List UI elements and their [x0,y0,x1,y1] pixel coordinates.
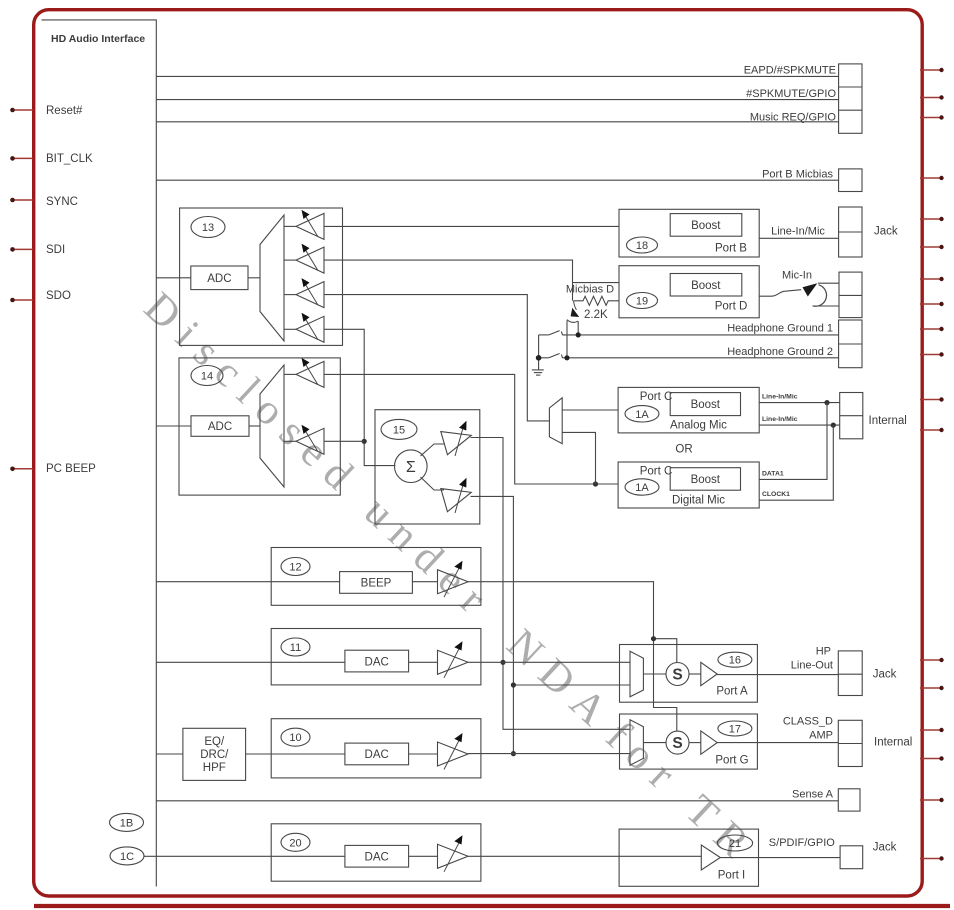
junction ground [536,355,542,361]
HPG pin stack [839,320,862,368]
stub IntC2 [920,429,941,431]
amp port A [701,662,717,685]
Port I block [619,829,758,886]
block 10 box [271,719,481,778]
wire line-in/mic 2 [759,424,840,426]
junction portG in2 [511,751,516,756]
svg-text:Boost: Boost [691,280,721,292]
wire line-in/mic 1 [759,402,840,404]
svg-text:16: 16 [729,655,741,667]
amp 11 [438,650,469,674]
mux block14 [260,365,284,487]
svg-text:1A: 1A [635,482,649,494]
wire muxG out [643,742,666,744]
svg-text:DRC/: DRC/ [200,749,229,761]
wire ADC14 to mux [249,425,260,427]
Port C analog block [618,387,759,433]
wire to mic jack lower [813,305,839,307]
svg-text:19: 19 [636,296,648,308]
wire Port B Micbias [156,179,838,181]
Port C selector mux [549,398,562,444]
boost B [670,214,742,237]
amp 13b [284,259,296,261]
jack B stack [839,207,862,257]
svg-text:Internal: Internal [869,415,907,427]
wire beep to S portA [654,639,677,663]
svg-text:1A: 1A [635,409,649,421]
wire bus to ADC14 [156,425,191,427]
oval 1C [110,847,144,865]
amp port G [701,731,717,754]
svg-text:Σ: Σ [406,459,416,476]
stub PC BEEP [13,468,34,470]
amp 13c [284,294,296,296]
oval 19 [627,293,658,309]
wire DATA1 [759,403,827,480]
DAC 11 [345,650,409,672]
junction portA in2 [511,682,516,687]
amp 15b [441,481,475,512]
wire portG out [717,742,838,744]
svg-text:10: 10 [289,732,301,744]
svg-text:CLASS_D: CLASS_D [783,716,833,728]
stub JackA1 [920,659,941,661]
HD Audio Interface box [42,20,157,887]
svg-text:HD Audio Interface: HD Audio Interface [51,33,145,45]
junction digmic [593,481,598,486]
wire amp13c to Port C mux [324,295,549,421]
svg-text:18: 18 [636,240,648,252]
block 12 box [271,548,481,606]
stub SDI [13,248,34,250]
stub SenseA [920,799,941,801]
svg-text:13: 13 [202,222,214,234]
svg-text:Mic-In: Mic-In [782,270,812,282]
stub IntG1 [920,729,941,731]
switch blade HPG2 [539,357,549,359]
wire Headphone Ground 2 [563,357,839,359]
amp 10 [438,742,469,766]
oval 20 [281,833,310,851]
svg-text:17: 17 [729,724,741,736]
svg-text:11: 11 [290,642,301,654]
block 15 box [375,410,480,524]
wire amp13d to mixer [324,329,395,465]
stub SPKMUTE [920,97,941,99]
wire sense A [156,800,838,802]
stub JackB1 [920,218,941,220]
block 14 box [179,358,340,495]
wire Music REQ/GPIO [156,121,838,123]
oval 11 [281,638,310,656]
svg-text:EAPD/#SPKMUTE: EAPD/#SPKMUTE [744,65,836,77]
svg-text:Jack: Jack [874,226,898,238]
wire beep in [156,581,339,583]
wire mic wave [759,290,801,297]
wire to Port A mux in2 [513,684,630,686]
wire dac11 to amp [409,661,438,663]
wire eq out [246,753,345,755]
svg-text:Port C: Port C [640,466,673,478]
oval 17 [718,721,752,736]
stub IntC1 [920,399,941,401]
boost D [670,274,742,297]
wire Headphone Ground 1 [563,334,839,336]
stub SPDIF [920,858,941,860]
right pin stubs [920,68,944,861]
svg-text:DAC: DAC [365,749,389,761]
oval 16 [718,652,752,667]
Port C digital block [618,462,759,508]
svg-text:Boost: Boost [691,220,721,232]
wire amp13b to Port D / micbias [324,260,573,301]
mux port A [630,651,643,697]
S switch A [666,663,689,686]
stub SYNC [13,199,34,201]
Port A block [620,645,758,703]
svg-text:Line-Out: Line-Out [791,660,833,672]
wire sel to HPG2 [566,320,568,357]
svg-text:S: S [672,735,682,752]
wire S to ampG [689,742,701,744]
wire portA out [717,674,838,676]
svg-text:HPF: HPF [203,762,226,774]
amp 13d [284,328,296,330]
ADC U13 [191,266,248,290]
svg-text:S/PDIF/GPIO: S/PDIF/GPIO [769,837,835,849]
svg-text:Analog Mic: Analog Mic [670,420,727,432]
oval 13 [191,217,225,238]
amp 13a [284,225,296,227]
wire dac10 to amp [409,753,438,755]
mic jack stack [839,272,862,318]
oval 12 [281,558,310,576]
mux port G [630,720,643,766]
svg-text:Music REQ/GPIO: Music REQ/GPIO [750,112,837,124]
switch blade HPG1 [539,334,549,336]
left pin stubs [10,108,33,471]
svg-text:ADC: ADC [208,421,232,433]
S switch G [666,731,689,754]
svg-text:EQ/: EQ/ [204,736,225,748]
mux block13 [260,215,284,341]
wire S to ampA [689,673,701,675]
svg-text:Internal: Internal [874,737,912,749]
block 11 box [271,629,481,685]
svg-text:Reset#: Reset# [46,105,83,117]
wire amp15a to Port G mux [471,438,631,730]
ground [532,369,544,371]
oval 21 [717,835,752,851]
svg-text:21: 21 [729,838,741,850]
svg-text:Micbias D: Micbias D [566,284,614,296]
svg-text:Port I: Port I [718,870,745,882]
svg-text:AMP: AMP [809,730,833,742]
svg-text:BIT_CLK: BIT_CLK [46,153,93,165]
stub HPG1 [920,328,941,330]
wire sum to amp15b [421,477,445,490]
svg-text:Port B: Port B [715,243,747,255]
wire CLOCK1 [759,425,833,500]
svg-text:DATA1: DATA1 [762,470,784,477]
junction data1 [824,400,829,405]
wire Port B to jack [759,237,838,239]
junction clock1 [831,423,836,428]
wire dac20 to amp [409,855,438,857]
svg-text:OR: OR [675,444,692,456]
amp 14b [284,440,296,442]
wire sel to analog mic [562,409,618,411]
stub IntG2 [920,758,941,760]
svg-text:CLOCK1: CLOCK1 [762,491,790,498]
summer U15 [395,450,428,483]
stub BIT_CLK [13,157,34,159]
internal C stack [840,393,863,439]
EQ/DRC/HPF box [183,728,246,780]
svg-text:BEEP: BEEP [361,578,392,590]
mic arrow [813,285,827,306]
block 13 box [180,208,343,345]
block 20 box [271,824,481,881]
GPIO pin stack [839,64,862,133]
resistor 2.2K [574,296,620,305]
oval 15 [381,419,417,439]
stub HPG2 [920,354,941,356]
oval 1A digital [625,479,659,495]
junction amp14b [362,439,367,444]
stub MusicREQ [920,117,941,119]
stub SDO [13,299,34,301]
svg-text:2.2K: 2.2K [584,309,608,321]
svg-text:#SPKMUTE/GPIO: #SPKMUTE/GPIO [746,88,836,100]
Port G block [620,714,758,769]
wire amp15b to Port A mux [471,496,514,753]
wire sel to HPG1 [577,321,579,335]
svg-text:Port C: Port C [640,391,673,403]
stub EAPD [920,69,941,71]
svg-text:DAC: DAC [365,852,389,864]
wire SDO bus to ADC13 [156,277,191,279]
oval 14 [191,366,223,386]
svg-text:Jack: Jack [873,842,897,854]
watermark Disclosed under NDA [135,283,766,874]
svg-text:S: S [672,667,682,684]
svg-text:Port B Micbias: Port B Micbias [762,169,833,181]
junction HPG2 [564,355,569,360]
wire 1C to dac20 [144,855,345,857]
svg-text:Boost: Boost [691,399,721,411]
sense A pin [838,789,860,811]
junction dac11 line [500,660,505,665]
svg-text:ADC: ADC [207,273,231,285]
amp port I [701,845,720,870]
svg-text:Headphone Ground 1: Headphone Ground 1 [727,323,833,335]
Port D block [619,266,759,318]
Port B Micbias pin [839,169,862,192]
junction HPG1 [576,332,581,337]
amp 14a [284,373,296,375]
amp 20 [438,844,469,868]
svg-text:12: 12 [289,562,301,574]
svg-text:Headphone Ground 2: Headphone Ground 2 [727,346,833,358]
stub PortBMicbias [920,177,941,179]
svg-text:PC BEEP: PC BEEP [46,463,96,475]
stub JackB2 [920,246,941,248]
BEEP box [340,572,413,594]
svg-text:Port G: Port G [715,755,748,767]
svg-text:1B: 1B [120,817,133,829]
spdif jack pin [840,846,863,869]
svg-text:HP: HP [816,646,831,658]
ADC U14 [191,416,249,437]
oval 1B [110,813,144,831]
wire beep to amp [412,581,437,583]
svg-text:Sense A: Sense A [792,789,834,801]
oval 18 [627,237,658,253]
amp 15a [441,424,475,455]
svg-text:14: 14 [201,371,213,383]
wire to mic jack upper [818,282,839,284]
wire sel to digital mic [562,432,595,484]
svg-text:Port A: Port A [716,686,748,698]
wire muxA out [643,673,666,675]
stub MicD2 [920,303,941,305]
svg-text:Port D: Port D [715,301,748,313]
selector arc [567,320,578,323]
svg-text:Line-In/Mic: Line-In/Mic [762,416,798,423]
svg-text:Jack: Jack [873,669,897,681]
boost C digital [670,468,740,491]
svg-text:Boost: Boost [691,474,721,486]
amp 12 [438,570,469,594]
stub JackA2 [920,687,941,689]
svg-text:15: 15 [393,424,405,436]
wire sum to amp15a [421,444,445,456]
junction beep [651,636,656,641]
wire amp14b to mixer junction [324,440,364,442]
wire amp14a to digital mic line [324,374,618,484]
svg-text:20: 20 [289,837,301,849]
Port B block [619,209,759,257]
internal G stack [838,720,862,766]
DAC 10 [345,743,409,765]
stub Reset# [13,109,34,111]
wire eq in [156,753,183,755]
svg-text:Digital Mic: Digital Mic [672,495,725,507]
oval 1A analog [625,406,659,422]
svg-text:SYNC: SYNC [46,196,78,208]
svg-text:Line-In/Mic: Line-In/Mic [762,394,798,401]
wire dac10 out [468,753,630,755]
wire EAPD [156,75,838,77]
wire ground riser [538,335,540,370]
wire beep out [468,582,677,731]
wire dac20 out to port I [468,855,701,857]
svg-text:SDO: SDO [46,290,71,302]
boost C analog [670,393,740,416]
svg-text:DAC: DAC [365,656,389,668]
wire portI out [720,857,840,859]
wire SPKMUTE/GPIO [156,99,838,101]
svg-text:Line-In/Mic: Line-In/Mic [771,226,825,238]
wire amp13a to Port B [324,225,619,227]
page bottom rule [34,904,950,908]
wire to Port D boost [573,282,620,284]
svg-text:SDI: SDI [46,244,65,256]
stub MicD1 [920,278,941,280]
jack A stack [838,651,862,696]
wire dac11 out [468,661,630,663]
oval 10 [281,728,310,746]
micbias selector arrow [574,301,577,310]
wire ADC13 to mux [248,277,260,279]
DAC 20 [345,845,409,867]
svg-text:1C: 1C [120,851,134,863]
wire dac11 in [156,661,345,663]
